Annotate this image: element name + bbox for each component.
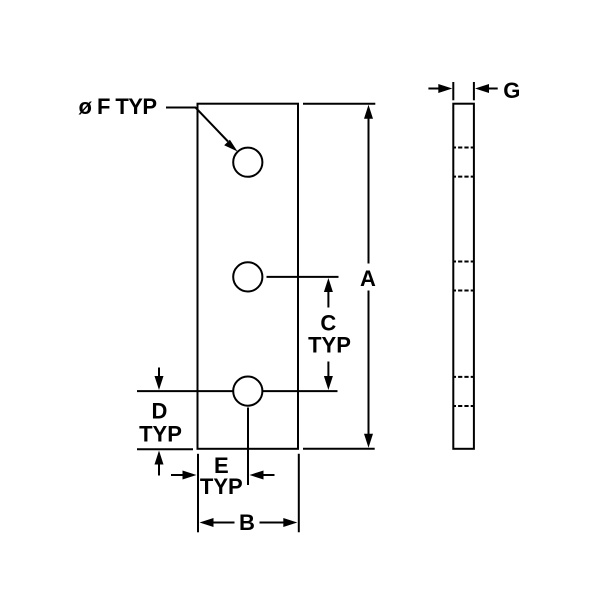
hole top <box>233 148 262 177</box>
hole bottom <box>233 377 262 406</box>
hidden line hole middle lower <box>453 290 474 292</box>
svg-text:A: A <box>360 266 376 291</box>
arrowhead B left <box>200 518 214 527</box>
arrowhead E left-pointing <box>250 471 264 480</box>
plate side view outline <box>453 104 474 449</box>
leader line F <box>166 108 228 142</box>
plate front view outline <box>198 104 299 449</box>
wire G right extension tick <box>473 82 475 100</box>
dimension line G left shaft <box>428 88 440 90</box>
wire E hole center extension <box>247 408 249 486</box>
svg-text:D: D <box>152 399 168 424</box>
dimension line B right shaft <box>260 522 286 524</box>
hidden line hole bottom upper <box>453 376 474 378</box>
wire A bottom extension <box>303 448 375 450</box>
arrowhead E right-pointing <box>183 471 197 480</box>
arrowhead leader F <box>224 140 237 152</box>
arrowhead C down <box>324 376 333 390</box>
hidden line hole top upper <box>453 147 474 149</box>
dimension line C lower <box>327 362 329 379</box>
dimension line D upper shaft <box>158 368 160 379</box>
hole middle <box>233 262 262 291</box>
wire right edge extension <box>298 454 300 533</box>
svg-text:ø F TYP: ø F TYP <box>79 94 158 119</box>
wire bottom hole center line <box>137 390 338 392</box>
dimension line C upper <box>327 291 329 308</box>
svg-text:TYP: TYP <box>139 421 182 446</box>
dimension line B left shaft <box>212 522 235 524</box>
arrowhead D down <box>155 376 164 390</box>
arrowhead A down <box>364 434 373 448</box>
dimension line G right shaft <box>487 88 498 90</box>
dimension line A upper <box>368 117 370 264</box>
svg-text:B: B <box>239 510 255 535</box>
dimension line A lower <box>368 291 370 437</box>
svg-text:TYP: TYP <box>200 474 243 499</box>
dimension line E left shaft <box>171 474 184 476</box>
wire middle hole center line <box>267 276 339 278</box>
arrowhead B right <box>283 518 297 527</box>
svg-text:TYP: TYP <box>308 333 351 358</box>
wire A top extension <box>303 103 375 105</box>
svg-text:G: G <box>503 78 520 103</box>
dimension line D lower shaft <box>158 464 160 476</box>
wire G left extension tick <box>452 82 454 100</box>
arrowhead G right-pointing <box>438 84 452 93</box>
arrowhead D up <box>155 451 164 465</box>
hidden line hole middle upper <box>453 261 474 263</box>
hidden line hole top lower <box>453 176 474 178</box>
arrowhead C up <box>324 278 333 292</box>
hidden line hole bottom lower <box>453 405 474 407</box>
arrowhead G left-pointing <box>475 84 489 93</box>
wire left edge extension <box>197 454 199 533</box>
arrowhead A up <box>364 105 373 119</box>
wire D bottom extension <box>137 448 193 450</box>
dimension line E right shaft <box>262 474 275 476</box>
